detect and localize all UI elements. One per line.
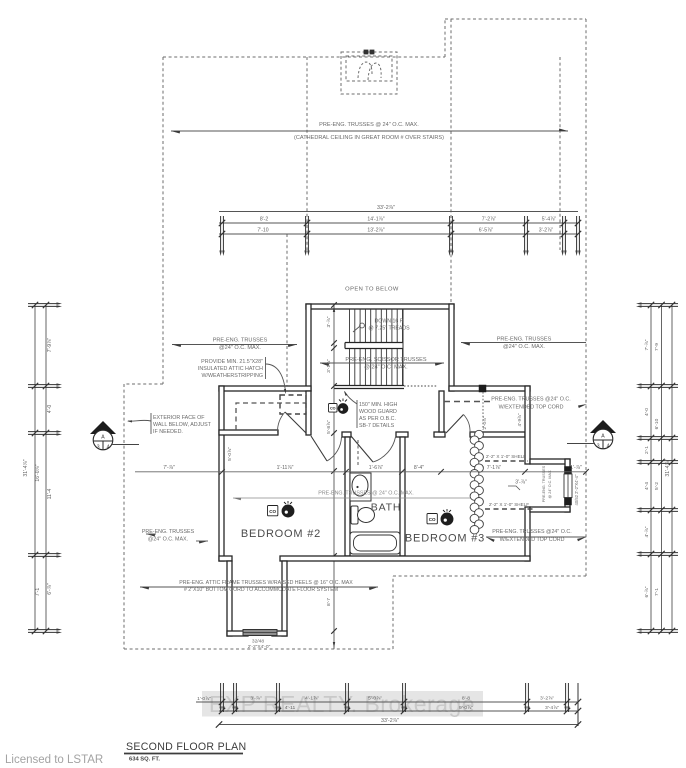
- svg-text:5'-0⅞": 5'-0⅞": [227, 447, 233, 461]
- svg-text:SB-7 DETAILS: SB-7 DETAILS: [359, 423, 395, 429]
- svg-text:WALL BELOW, ADJUST: WALL BELOW, ADJUST: [153, 422, 212, 428]
- svg-text:3'-2⅞": 3'-2⅞": [540, 696, 554, 702]
- svg-text:OPEN TO BELOW: OPEN TO BELOW: [345, 287, 399, 293]
- svg-text:11'-4: 11'-4: [47, 488, 53, 499]
- svg-text:BATH: BATH: [371, 502, 401, 514]
- svg-text:31'-4⅞": 31'-4⅞": [665, 459, 671, 476]
- svg-text:A: A: [601, 434, 605, 440]
- svg-text:7'-⅞": 7'-⅞": [163, 465, 175, 471]
- svg-text:# 2"X10" BOTTOM CORD TO ACCOMM: # 2"X10" BOTTOM CORD TO ACCOMMODATE FLOO…: [184, 587, 338, 593]
- svg-text:CO: CO: [429, 517, 436, 522]
- svg-text:WOOD GUARD: WOOD GUARD: [359, 409, 397, 415]
- svg-text:3'-⅞": 3'-⅞": [326, 316, 332, 327]
- svg-text:3'-⅞": 3'-⅞": [250, 696, 262, 702]
- svg-text:IF NEEDED.: IF NEEDED.: [153, 429, 183, 435]
- svg-text:4'-4: 4'-4: [644, 482, 650, 490]
- svg-text:AS PER O.B.C.: AS PER O.B.C.: [359, 416, 396, 422]
- svg-text:31'-4⅞": 31'-4⅞": [23, 459, 29, 476]
- svg-text:7'-9: 7'-9: [654, 343, 660, 351]
- svg-text:5'-8⅞": 5'-8⅞": [326, 420, 332, 434]
- svg-text:5'-2: 5'-2: [654, 482, 660, 490]
- svg-text:PRE-ENG. TRUSSES @24" O.C.: PRE-ENG. TRUSSES @24" O.C.: [491, 397, 570, 403]
- svg-text:W/EXTENDED TOP CORD: W/EXTENDED TOP CORD: [500, 537, 565, 543]
- svg-text:14'-1⅞": 14'-1⅞": [367, 217, 384, 223]
- svg-text:4'-⅞": 4'-⅞": [644, 526, 650, 537]
- svg-text:3'-2⅞": 3'-2⅞": [539, 228, 554, 234]
- svg-text:6'-⅞": 6'-⅞": [644, 586, 650, 597]
- svg-text:3'-⅞": 3'-⅞": [515, 480, 527, 486]
- svg-text:PRE-ENG. TRUSSES: PRE-ENG. TRUSSES: [497, 337, 552, 343]
- svg-text:1'-11⅞": 1'-11⅞": [277, 465, 294, 471]
- svg-text:A: A: [101, 435, 105, 441]
- svg-text:1'-⅞": 1'-⅞": [570, 465, 582, 471]
- svg-text:13'-2⅞": 13'-2⅞": [367, 228, 384, 234]
- svg-text:BEDROOM #2: BEDROOM #2: [241, 528, 321, 540]
- svg-text:5'-4⅞": 5'-4⅞": [542, 217, 557, 223]
- svg-text:DOWN 16 R: DOWN 16 R: [375, 319, 404, 325]
- svg-text:W/WEATHERSTRIPPING: W/WEATHERSTRIPPING: [202, 373, 263, 379]
- svg-text:8'-2: 8'-2: [260, 217, 269, 223]
- svg-text:6'-10: 6'-10: [654, 418, 660, 429]
- svg-text:@24" O.C. MAX.: @24" O.C. MAX.: [219, 345, 261, 351]
- svg-text:PRE-ENG. ATTIC FRAME TRUSSES W: PRE-ENG. ATTIC FRAME TRUSSES W/RAISED HE…: [179, 580, 353, 586]
- svg-text:8'-7: 8'-7: [326, 598, 332, 606]
- svg-text:4'-0: 4'-0: [47, 405, 53, 414]
- svg-text:PRE-ENG. TRUSSES: PRE-ENG. TRUSSES: [542, 465, 546, 502]
- svg-text:CO: CO: [269, 509, 276, 514]
- svg-text:2'-0⅞": 2'-0⅞": [482, 416, 487, 429]
- svg-text:7'-1⅞": 7'-1⅞": [487, 465, 502, 471]
- svg-text:7'-2⅞": 7'-2⅞": [482, 217, 497, 223]
- svg-text:16'-0⅞": 16'-0⅞": [35, 464, 41, 481]
- svg-text:634 SQ. FT.: 634 SQ. FT.: [129, 757, 160, 763]
- svg-text:@ 7.25" TREADS: @ 7.25" TREADS: [368, 326, 410, 332]
- svg-text:W/EXTENDED TOP CORD: W/EXTENDED TOP CORD: [499, 405, 564, 411]
- svg-text:SECOND FLOOR PLAN: SECOND FLOOR PLAN: [126, 741, 246, 753]
- svg-text:150" MIN. HIGH: 150" MIN. HIGH: [359, 402, 397, 408]
- svg-text:33'-2⅞": 33'-2⅞": [381, 718, 399, 724]
- svg-text:2'-2"X4'-0": 2'-2"X4'-0": [248, 644, 271, 650]
- svg-text:PRE-ENG. TRUSSES @24" O.C.: PRE-ENG. TRUSSES @24" O.C.: [492, 529, 571, 535]
- svg-text:@ 24" O.C. MAX.: @ 24" O.C. MAX.: [364, 365, 408, 371]
- svg-text:7'-10: 7'-10: [257, 228, 268, 234]
- svg-text:2'-2" X 1'-0" SHELF: 2'-2" X 1'-0" SHELF: [489, 502, 529, 507]
- svg-text:4'-0: 4'-0: [644, 408, 650, 416]
- svg-text:3'-1⅞": 3'-1⅞": [326, 359, 332, 373]
- svg-text:1'-6⅞": 1'-6⅞": [369, 465, 384, 471]
- svg-text:PRE-ENG. SCISSOR TRUSSES: PRE-ENG. SCISSOR TRUSSES: [345, 357, 426, 363]
- svg-text:3'-4⅞": 3'-4⅞": [545, 705, 559, 711]
- svg-text:4: 4: [607, 444, 610, 450]
- svg-text:40/52 2'-2"X4'-4": 40/52 2'-2"X4'-4": [574, 474, 579, 505]
- svg-text:BEDROOM #3: BEDROOM #3: [405, 533, 485, 545]
- svg-text:4'-9⅞": 4'-9⅞": [517, 413, 522, 426]
- svg-text:4: 4: [107, 445, 110, 451]
- svg-text:PROVIDE MIN. 21.5"X28": PROVIDE MIN. 21.5"X28": [201, 359, 263, 365]
- svg-text:EXTERIOR FACE OF: EXTERIOR FACE OF: [153, 415, 205, 421]
- svg-text:7'-⅞": 7'-⅞": [644, 339, 650, 350]
- svg-text:8'-4": 8'-4": [414, 465, 424, 471]
- svg-text:4'-11: 4'-11: [285, 705, 296, 711]
- svg-text:2'-1: 2'-1: [644, 446, 650, 454]
- svg-text:7'-1: 7'-1: [654, 588, 660, 596]
- svg-text:7'-1: 7'-1: [35, 588, 41, 597]
- svg-text:6'-⅞": 6'-⅞": [47, 583, 53, 595]
- svg-text:5'-0⅞": 5'-0⅞": [368, 696, 382, 702]
- svg-text:32/48: 32/48: [252, 639, 264, 645]
- svg-text:3: 3: [97, 445, 100, 451]
- svg-text:7'-9⅞": 7'-9⅞": [47, 338, 53, 353]
- svg-text:(CATHEDRAL CEILING IN GREAT RO: (CATHEDRAL CEILING IN GREAT ROOM # OVER …: [294, 135, 444, 141]
- svg-text:4'-1⅞": 4'-1⅞": [305, 696, 319, 702]
- svg-text:@ 24" O.C. MAX.: @ 24" O.C. MAX.: [548, 470, 552, 499]
- svg-text:EXP REALTY. Brokerage: EXP REALTY. Brokerage: [209, 691, 475, 717]
- svg-text:3: 3: [597, 444, 600, 450]
- svg-text:2'-2" X 1'-0" SHELF: 2'-2" X 1'-0" SHELF: [486, 454, 526, 459]
- svg-text:8'-8: 8'-8: [462, 696, 470, 702]
- svg-text:6'-5⅞": 6'-5⅞": [479, 228, 494, 234]
- svg-text:Licensed to LSTAR: Licensed to LSTAR: [5, 754, 103, 766]
- svg-text:PRE-ENG. TRUSSES: PRE-ENG. TRUSSES: [213, 338, 268, 344]
- svg-text:INSULATED ATTIC HATCH: INSULATED ATTIC HATCH: [198, 366, 263, 372]
- svg-text:33'-2⅞": 33'-2⅞": [377, 205, 395, 211]
- svg-text:1'-0⅞": 1'-0⅞": [197, 696, 211, 702]
- svg-text:9'-0⅞": 9'-0⅞": [459, 705, 473, 711]
- svg-text:CO: CO: [330, 407, 336, 411]
- svg-text:@24" O.C. MAX.: @24" O.C. MAX.: [503, 344, 545, 350]
- svg-text:PRE-ENG. TRUSSES @ 24" O.C. MA: PRE-ENG. TRUSSES @ 24" O.C. MAX.: [319, 122, 419, 128]
- svg-text:PRE-ENG. TRUSSES @ 24" O.C. MA: PRE-ENG. TRUSSES @ 24" O.C. MAX.: [318, 491, 413, 497]
- svg-text:@24" O.C. MAX.: @24" O.C. MAX.: [148, 537, 188, 543]
